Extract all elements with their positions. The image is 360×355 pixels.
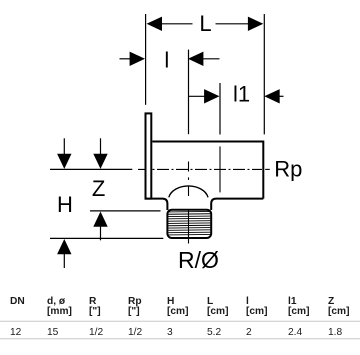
- label R/O: [178, 247, 219, 273]
- svg-text:[cm]: [cm]: [167, 306, 189, 317]
- dimension L extension line left: [145, 14, 147, 105]
- union nut: [167, 210, 211, 238]
- label l1: [233, 81, 250, 106]
- svg-text:[cm]: [cm]: [288, 306, 310, 317]
- wall flange plate: [146, 113, 152, 198]
- Z bottom arrow (up): [93, 212, 107, 241]
- H bottom arrow (up): [57, 239, 71, 268]
- svg-text:L: L: [199, 11, 211, 36]
- dimension L extension line right: [263, 14, 265, 134]
- table header rule: [0, 320, 360, 322]
- horizontal centerline of body: [138, 168, 270, 170]
- table bottom rule: [0, 338, 360, 340]
- dome over nut: [169, 186, 208, 197]
- label l: [164, 47, 169, 72]
- svg-text:l: l: [164, 47, 169, 72]
- svg-text:Z: Z: [92, 176, 105, 201]
- svg-text:["]: ["]: [128, 306, 140, 317]
- svg-text:12: 12: [10, 327, 22, 338]
- table header row: [10, 296, 350, 317]
- dimension line l with outside arrows: [120, 52, 220, 66]
- svg-text:DN: DN: [10, 296, 25, 307]
- nut thread hatch lines: [168, 211, 210, 235]
- svg-text:2: 2: [246, 327, 252, 338]
- H bottom reference line (nut bottom): [50, 237, 163, 239]
- svg-text:[cm]: [cm]: [246, 306, 268, 317]
- H/Z top reference line at body axis: [50, 168, 132, 170]
- dimension l1 extension line (outlet axis above body): [219, 83, 221, 135]
- svg-text:3: 3: [167, 327, 173, 338]
- label L: [199, 11, 211, 36]
- svg-text:[cm]: [cm]: [207, 306, 229, 317]
- vertical centerline of nut: [188, 162, 190, 244]
- table value row: [10, 327, 342, 338]
- vertical centerline of outlet (l1 axis): [219, 146, 221, 192]
- svg-text:R/Ø: R/Ø: [178, 247, 219, 273]
- svg-text:l1: l1: [233, 81, 250, 106]
- fitting bottom edge with step left: [145, 199, 168, 210]
- Z bottom reference line (nut top): [90, 210, 161, 212]
- dimension l extension line (nut axis above body): [188, 50, 190, 135]
- svg-text:2.4: 2.4: [288, 327, 302, 338]
- label Rp: [274, 156, 302, 181]
- svg-text:15: 15: [47, 327, 59, 338]
- label Z: [92, 176, 105, 201]
- dimension line L with arrows: [147, 17, 264, 31]
- svg-text:5.2: 5.2: [207, 327, 221, 338]
- svg-text:[cm]: [cm]: [328, 306, 350, 317]
- dimension line l1 with outside arrows: [189, 89, 284, 103]
- svg-text:1/2: 1/2: [128, 327, 142, 338]
- fitting bottom edge with step right: [211, 199, 263, 210]
- svg-text:H: H: [57, 192, 73, 217]
- svg-text:Rp: Rp: [274, 156, 302, 181]
- svg-text:1.8: 1.8: [328, 327, 342, 338]
- H top arrow (down): [57, 138, 71, 169]
- svg-text:["]: ["]: [89, 306, 101, 317]
- fitting body rectangle: [152, 142, 263, 199]
- svg-text:1/2: 1/2: [89, 327, 103, 338]
- label H: [57, 192, 73, 217]
- svg-text:[mm]: [mm]: [47, 306, 72, 317]
- Z top arrow (down): [93, 138, 107, 169]
